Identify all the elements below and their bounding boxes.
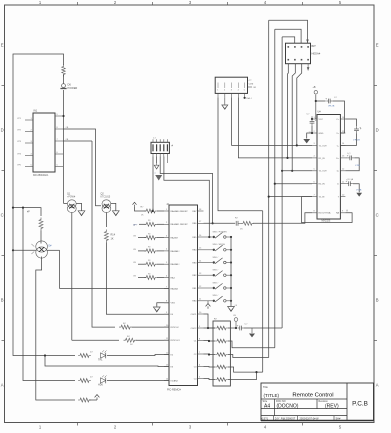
capacitor C9 left of U4	[311, 116, 313, 119]
svg-text:+POW#: +POW#	[67, 197, 76, 199]
IC U4 left pin 2	[312, 132, 317, 134]
wire R2_IN with capacitor C12 down to ground	[345, 183, 346, 185]
U3 pin5 net stub with junction	[244, 97, 246, 99]
junction dots on bus rows	[296, 144, 298, 146]
connector CN1 pin slot 4	[163, 144, 165, 151]
wire CN1 leg3 right route to R row	[160, 157, 212, 224]
junction CN1 leg4 on switch row	[208, 236, 210, 238]
IC U4 right pin 9	[340, 118, 345, 120]
resistor network element 1	[215, 326, 228, 330]
svg-text:#M: #M	[253, 87, 256, 89]
wire row 170.8 to right IC	[282, 170, 312, 172]
MCU left pin stub row 3	[164, 237, 169, 239]
svg-text:C1M: C1M	[249, 83, 254, 85]
ground right of U4 bottom	[356, 193, 362, 197]
wire U1 pin6 to keypad row	[63, 140, 92, 142]
wire through IR LED row	[13, 249, 36, 251]
IC U1 left pin 4	[25, 155, 33, 157]
deep vertical v3 up	[274, 29, 276, 348]
deep vertical v4 up from row1	[281, 37, 283, 328]
IC U4 left pin 7	[312, 196, 317, 198]
resistor on LED row TH1	[78, 354, 91, 358]
wire R1_IN loop with capacitor C11	[345, 157, 347, 159]
svg-text:D: D	[376, 128, 379, 133]
wire loop 3 over top	[282, 37, 295, 43]
switch SW6 row	[204, 300, 213, 302]
wire CN1 leg5 stub	[166, 157, 168, 164]
resistor R14 1K	[104, 230, 108, 243]
ground left of U4	[303, 139, 310, 143]
svg-text:V#2B: V#2B	[356, 190, 362, 192]
svg-text:Rd/L#: Rd/L#	[246, 98, 252, 100]
wire +B row with capacitor C8	[316, 100, 326, 102]
svg-text:C: C	[1, 213, 4, 218]
ground open triangle CN1	[154, 165, 159, 169]
svg-text:R2_IN: R2_IN	[319, 184, 326, 186]
MCU right pin stub row 12	[198, 353, 204, 355]
wire row RA4 to MCU	[60, 288, 170, 290]
resistor R1 vertical above power LED	[62, 65, 66, 77]
svg-text:R1_IN: R1_IN	[319, 158, 326, 160]
svg-text:T2_IN: T2_IN	[319, 197, 325, 199]
MCU left pin stub row 12	[164, 354, 169, 356]
wire and supply arrow at bottom row	[89, 399, 97, 401]
svg-text:SW# / POWER: SW# / POWER	[213, 231, 228, 233]
svg-text:B: B	[376, 298, 379, 303]
wire MCU rows to network inputs	[204, 327, 216, 329]
MCU right pin stub row 4	[198, 249, 204, 251]
wire left bus 2 to LED row HD6	[23, 208, 75, 381]
IC U4 left pin 1	[312, 118, 317, 120]
MCU right pin stub row 11	[198, 340, 204, 342]
CN2 legs down	[287, 64, 290, 158]
wire Q1 right to ground	[76, 203, 81, 210]
svg-text:VR.2B: VR.2B	[328, 106, 335, 108]
svg-text:T2_OUT: T2_OUT	[319, 171, 328, 173]
MCU left pin stub row 4	[164, 250, 169, 252]
IC U4 left pin 8	[312, 212, 317, 214]
wire Q1 emitter down	[71, 212, 73, 340]
IC U4 left pin 3	[312, 144, 317, 146]
svg-text:RA1/AN1 RB1/SP: RA1/AN1 RB1/SP	[171, 223, 189, 226]
IC U4 right pin 14	[340, 183, 345, 185]
svg-text:D-: D-	[337, 171, 340, 173]
svg-text:E: E	[376, 43, 379, 48]
MCU right pin stub row 8	[198, 300, 204, 302]
svg-text:SH#: SH#	[336, 417, 341, 420]
MCU left pin stub row 11	[164, 339, 169, 341]
MCU right pin stub row 6	[198, 274, 204, 276]
MCU ground pin row with down arrow	[157, 303, 169, 307]
IC U3 body	[215, 77, 247, 93]
wire CN1 leg4 right route to switch row	[164, 157, 209, 238]
svg-text:A: A	[376, 383, 379, 388]
wire C9 down to GND pin and ground	[311, 126, 313, 133]
ground at Q2	[112, 211, 119, 216]
MCU left pin stub row 8	[164, 302, 169, 304]
IC U1 left pin 2	[25, 131, 33, 133]
svg-text:GND: GND	[319, 133, 324, 135]
svg-text:1K: 1K	[111, 238, 114, 241]
svg-text:INT/CLK#: INT/CLK#	[171, 340, 181, 342]
MCU left pin stub row 6	[164, 277, 169, 279]
resistor network element 5	[215, 378, 228, 382]
IC U1 KID65004 body	[33, 113, 55, 172]
U3 right side pin stub	[248, 86, 253, 88]
wire Q2 right to ground	[111, 203, 116, 210]
MCU left pin stub row 5	[164, 263, 169, 265]
svg-text:HD6: HD6	[98, 384, 103, 387]
junction IC1 pin8	[62, 115, 64, 117]
svg-text:SW# / MODE: SW# / MODE	[213, 244, 226, 246]
supply arrow under last switch row	[206, 304, 211, 307]
svg-text:RA2/A7: RA2/A7	[171, 237, 179, 240]
wire net row to U4 T2_IN	[269, 196, 312, 198]
wire U3 pin4 to right IC row	[238, 97, 312, 157]
IC U4 right pin 11	[340, 144, 345, 146]
svg-text:R14: R14	[111, 234, 116, 237]
svg-text:POWER: POWER	[68, 86, 78, 90]
network output row1 with capacitor C7	[228, 327, 236, 329]
svg-text:RA0/AN0 RB0/SP: RA0/AN0 RB0/SP	[171, 210, 189, 213]
MCU right pin stub row 13	[198, 366, 204, 368]
MCU right pin stub row 1	[198, 210, 204, 212]
IC U4 left pin 4	[312, 157, 317, 159]
frame zone ticks top	[77, 2, 79, 5]
ground under switches	[228, 307, 235, 312]
IC U1 left pin 5	[25, 166, 33, 168]
IC U1 right pin 10	[55, 166, 63, 168]
IR LED emission arrows	[31, 244, 34, 247]
connector CN1 pin slot 3	[159, 144, 161, 151]
wire C10 to T1_OUT pin	[340, 133, 356, 145]
wire RB6 row capacitor and resistor R11	[204, 222, 236, 224]
capacitor C10 right of U4	[356, 127, 358, 129]
connector CN1 pin slot 1	[152, 144, 154, 151]
wire TH1 row to MCU	[107, 355, 169, 356]
svg-text:+B: +B	[313, 86, 316, 89]
svg-text:TH1: TH1	[98, 359, 103, 362]
svg-text:E: E	[1, 43, 4, 48]
IC U1 left pin 1	[25, 119, 33, 121]
connector CN1 5-pin body	[151, 142, 169, 153]
wire stub row 366	[45, 356, 150, 367]
svg-text:K2/AN2: K2/AN2	[171, 379, 179, 382]
wire U3 pin1 down and right to deep vertical	[218, 97, 263, 210]
svg-text:B: B	[1, 298, 4, 303]
network output row2 to v3	[228, 341, 275, 348]
switch SW1 row	[204, 236, 213, 238]
wire left bus 3 to bottom row	[36, 262, 75, 400]
connector CN2 pin squares	[288, 46, 290, 48]
svg-text:OSC1: OSC1	[191, 314, 198, 316]
ground on output row1	[251, 328, 253, 333]
supply node +B above U4	[314, 91, 317, 94]
svg-text:RA2/AN#: RA2/AN#	[171, 250, 181, 253]
svg-text:A1S?1: A1S?1	[261, 417, 269, 420]
wire HD6 row to MCU	[107, 380, 169, 382]
MCU right pin stub row 10	[198, 327, 204, 329]
MCU right pin stub row 7	[198, 287, 204, 289]
connector CN1 pin slot 2	[156, 144, 158, 151]
wire R2 to IR LED	[40, 231, 42, 244]
resistor R12 on row 327	[119, 325, 132, 329]
transistor Q2 double circle	[102, 200, 111, 208]
MCU left pin stub row 7	[164, 288, 169, 290]
svg-text:IN1: IN1	[34, 110, 38, 113]
U3 legs	[217, 93, 219, 97]
IC U1 right pin 9	[55, 153, 63, 155]
frame zone ticks bottom	[77, 423, 79, 426]
svg-text:Remote Control: Remote Control	[292, 392, 333, 398]
svg-text:HEDA#: HEDA#	[312, 52, 321, 56]
supply circle above network output	[234, 318, 238, 322]
IC U4 right pin 13	[340, 170, 345, 172]
title block P.C.B cell divider	[346, 383, 348, 421]
wire CN1 leg2 to ground	[156, 157, 158, 164]
ground at U3 pin2	[224, 97, 226, 104]
wire vertical to row 327	[92, 141, 115, 327]
svg-text:VSS: VSS	[171, 303, 176, 305]
network output row5 joins row4	[228, 372, 257, 379]
connector CN1 pin slot 5	[166, 144, 168, 151]
svg-text:RA2/AN#: RA2/AN#	[171, 263, 181, 266]
IC U1 right pin 8	[55, 140, 63, 142]
resistor on LED row HD6	[78, 379, 91, 383]
wire Q1 base from power rail	[64, 202, 68, 204]
svg-text:D: D	[1, 128, 4, 133]
svg-text:B#7: B#7	[312, 45, 317, 48]
wire U4 pin C+ to cap C10	[345, 119, 356, 127]
wire C8 to U4 right pin V+	[333, 101, 345, 133]
frame zone ticks right	[374, 85, 377, 87]
switch common vertical	[230, 237, 232, 306]
wire D6 to IC1 and Q1	[63, 90, 65, 203]
svg-text:SW# /: SW# /	[213, 282, 219, 284]
svg-text:R1OUT R1A: R1OUT R1A	[319, 212, 332, 215]
IC U1 left pin 3	[25, 142, 33, 144]
svg-text:PIC-REMC#: PIC-REMC#	[167, 389, 181, 392]
resistor network element 2	[215, 339, 228, 343]
wire loop 2 over top	[275, 29, 301, 43]
svg-text:VCC: VCC	[319, 119, 324, 121]
svg-text:DJY_R@J2000ST: DJY_R@J2000ST	[275, 417, 296, 420]
MCU U2 body	[169, 205, 198, 386]
svg-text:INT/CLK: INT/CLK	[171, 327, 180, 329]
svg-text:KTC1815: KTC1815	[101, 197, 111, 199]
network output row4 to v1	[228, 367, 263, 372]
IC U1 right pin 6	[55, 115, 63, 117]
svg-text:T1_OUT: T1_OUT	[319, 145, 328, 147]
svg-text:SW# /: SW# /	[213, 257, 219, 259]
diode D6 POWER	[62, 84, 66, 88]
MCU left pin stub row 9	[164, 313, 169, 315]
svg-text:+: +	[325, 96, 327, 100]
LED TH1	[101, 353, 106, 358]
svg-text:V-: V-	[337, 184, 339, 186]
wire wrap from bottom pin around part label to T2_IN	[302, 197, 353, 223]
svg-text:KID-65004AC1: KID-65004AC1	[33, 174, 49, 177]
resistor network element 3	[215, 353, 228, 357]
wire R14 down to row 314	[106, 243, 169, 315]
svg-text:+: +	[237, 323, 239, 327]
MCU left pin stub row 14	[164, 380, 169, 382]
MCU left pin stub row 1	[164, 210, 169, 212]
svg-text:SW# /: SW# /	[213, 270, 219, 272]
title block outline	[261, 383, 374, 421]
network output row3 to v2	[228, 355, 269, 358]
junction CN1 leg3 on R row	[212, 222, 214, 224]
wire U1 pin7 to Q2 base	[63, 129, 101, 206]
MCU right pin stub row 9	[198, 313, 204, 315]
junction connector leg on MCU row1	[151, 210, 153, 212]
wire MCU OSC1 to network	[204, 314, 216, 328]
CN2 bottom pin mark	[307, 64, 309, 71]
deep vertical wire v1	[262, 211, 264, 372]
switch SW3 row	[204, 262, 213, 264]
wire bus to R2 top	[13, 208, 41, 216]
MCU right pin stub row 14	[198, 378, 204, 380]
IC U4 right pin 10	[340, 132, 345, 134]
wire CN1 leg1 to MCU row1	[152, 157, 154, 212]
transistor Q1 double circle	[67, 200, 76, 208]
svg-text:A: A	[1, 383, 4, 388]
connector CN2 header body	[286, 43, 311, 64]
wire row 366 to MCU jog	[150, 365, 169, 368]
wire row 183.7 to right IC	[275, 183, 312, 185]
title block column dividers row2	[274, 399, 276, 416]
wire Q1 row 340 with resistor R13	[72, 339, 119, 341]
MCU left pin stub row 10	[164, 326, 169, 328]
deep vertical v2 up	[268, 20, 270, 357]
svg-text:#P: #P	[27, 212, 30, 214]
IC U4 body	[317, 115, 340, 220]
resistor network RN1 box	[213, 321, 230, 386]
wire loop 1 over top	[269, 20, 308, 43]
switch SW4 row	[204, 274, 213, 276]
MCU left pin stub row 13	[164, 366, 169, 368]
MCU left pin stub row 2	[164, 223, 169, 225]
MCU right pin stub row 3	[198, 236, 204, 238]
svg-text:(REV): (REV)	[325, 404, 339, 410]
ground at Q1	[78, 211, 85, 216]
MCU right pin stub row 5	[198, 262, 204, 264]
IC U4 left pin 6	[312, 183, 317, 185]
svg-text:+(C#,(A: +(C#,(A	[346, 178, 354, 181]
connector CN1 legs	[152, 154, 154, 157]
svg-text:P.C.B: P.C.B	[352, 401, 368, 408]
wire left bus to LED row TH1	[13, 250, 75, 355]
switch SW5 row	[204, 287, 213, 289]
IC U1 right pin 7	[55, 128, 63, 130]
svg-text:V.2B: V.2B	[355, 165, 360, 167]
IC U4 right pin 12	[340, 157, 345, 159]
svg-text:C: C	[376, 213, 379, 218]
resistor R2 vertical	[39, 218, 43, 231]
svg-text:(DOCNO): (DOCNO)	[277, 404, 299, 410]
IC U4 right pin 15	[340, 196, 345, 198]
svg-text:A4: A4	[264, 404, 270, 410]
resistor on bottom open row	[78, 398, 91, 402]
ground triangle CN1	[155, 175, 162, 181]
wire U3 pin3 to right IC row	[232, 97, 312, 145]
svg-text:Title: Title	[263, 385, 268, 389]
title block row dividers	[261, 398, 347, 400]
wire IR LED right corner down	[59, 250, 61, 288]
svg-text:+: +	[315, 118, 317, 122]
resistor network element 4	[215, 365, 228, 369]
svg-text:OSC2: OSC2	[191, 328, 198, 330]
svg-text:(TITLE): (TITLE)	[264, 393, 280, 398]
wire top-left bus corner	[13, 54, 64, 250]
IC U4 right pin 16	[340, 212, 345, 214]
wire IR LED bottom down	[41, 257, 43, 263]
title block bottom row dividers	[273, 416, 275, 421]
svg-text:SW# /: SW# /	[213, 295, 219, 297]
keypad series resistors rows 1-6	[133, 202, 137, 204]
svg-text:RA0/A4: RA0/A4	[171, 287, 179, 290]
MCU right pin stub row 2	[198, 222, 204, 224]
arrowhead on loop1 at header	[306, 40, 309, 43]
wire resistor to diode D6	[63, 75, 65, 85]
LED HD6	[101, 378, 106, 383]
svg-text:2002/02/07:0# W: 2002/02/07:0# W	[300, 417, 320, 420]
IC U4 left pin 5	[312, 170, 317, 172]
wire Q2 emitter to R14	[105, 212, 107, 227]
svg-text:C-: C-	[337, 145, 340, 147]
IR LED D1 double circle	[36, 241, 48, 252]
frame zone ticks left	[2, 85, 5, 87]
switch SW2 row	[204, 249, 213, 251]
